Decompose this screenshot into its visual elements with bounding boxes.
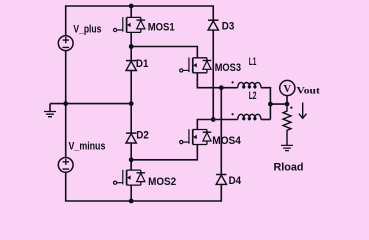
svg-text:D3: D3 bbox=[222, 20, 235, 32]
svg-text:L1: L1 bbox=[249, 56, 257, 68]
svg-text:V_minus: V_minus bbox=[69, 140, 106, 152]
svg-text:MOS3: MOS3 bbox=[215, 62, 241, 74]
svg-text:D1: D1 bbox=[136, 58, 149, 70]
svg-text:MOS2: MOS2 bbox=[148, 176, 176, 188]
svg-text:V_plus: V_plus bbox=[73, 23, 101, 35]
svg-text:MOS4: MOS4 bbox=[212, 135, 241, 147]
svg-text:Rload: Rload bbox=[274, 161, 304, 173]
svg-text:D2: D2 bbox=[136, 130, 149, 142]
svg-text:D4: D4 bbox=[229, 175, 242, 187]
svg-text:Vout: Vout bbox=[297, 85, 321, 95]
svg-text:L2: L2 bbox=[249, 90, 257, 102]
svg-text:V: V bbox=[284, 84, 292, 95]
svg-text:MOS1: MOS1 bbox=[148, 22, 175, 34]
